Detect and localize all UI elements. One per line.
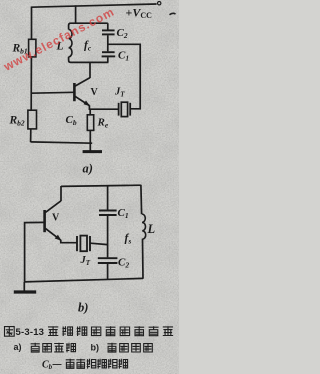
svg-text:V: V xyxy=(52,212,60,223)
svg-text:b): b) xyxy=(91,343,100,353)
wire: bottom rail xyxy=(31,142,93,143)
wire: between C1 and junction (b) xyxy=(107,216,109,258)
transistor V(b): collector diagonal xyxy=(45,201,61,213)
wire: left vertical between Rb1 and Rb2 xyxy=(30,57,32,110)
wire: right branch bottom (b) xyxy=(142,239,145,279)
wire: top rail (b) xyxy=(61,185,141,186)
watermark www.elecfans.com xyxy=(1,4,117,74)
caption line2 hanzi a xyxy=(31,343,40,352)
svg-text:V: V xyxy=(91,87,99,98)
capacitor C1 (b) xyxy=(99,210,117,212)
resistor Rb2 xyxy=(28,110,37,129)
tank loop top edge xyxy=(69,23,108,29)
transistor V: emitter diagonal xyxy=(75,96,90,105)
resistor Re xyxy=(87,115,93,131)
resistor Rb1 xyxy=(29,39,36,57)
svg-text:b): b) xyxy=(78,300,88,314)
wire: base lead + left branch down (b) xyxy=(25,222,45,282)
tank loop left-bottom corner + bottom edge xyxy=(69,57,109,63)
crystal JT plates xyxy=(118,103,120,116)
wire: right branch top (b) xyxy=(140,185,143,214)
caption line1 hanzi xyxy=(48,326,58,336)
inductor L (b, 3 loops) xyxy=(142,214,146,239)
transistor V(b): emitter diagonal xyxy=(45,228,60,240)
crystal JT(b) box xyxy=(80,236,87,252)
capacitor C2 (b) xyxy=(98,257,118,259)
wire: Re lead from emitter node xyxy=(89,109,91,115)
transistor V(b): emitter arrowhead xyxy=(55,235,61,240)
node: +Vcc terminal circle xyxy=(158,2,161,5)
capacitor C2 (tank) xyxy=(102,29,115,31)
wire: collector drop from tank xyxy=(89,62,91,78)
svg-text:L: L xyxy=(147,222,156,236)
svg-text:5-3-13: 5-3-13 xyxy=(16,327,45,338)
caption hanzi 图 xyxy=(5,327,15,337)
wire: between C2 and C1 xyxy=(107,35,109,51)
inductor L (tank, 3 loops) xyxy=(69,29,72,56)
wire: cap column top lead xyxy=(107,23,109,29)
svg-text:—: — xyxy=(53,359,62,369)
transistor V: base bar xyxy=(73,83,76,101)
paper background xyxy=(0,0,179,374)
ground (circuit b) xyxy=(23,282,25,291)
caption line3 hanzi xyxy=(66,359,75,369)
wire: Vcc feed to tank xyxy=(75,5,77,24)
wire: C branch top lead (b) xyxy=(107,186,109,210)
svg-text:a): a) xyxy=(14,342,22,352)
wire: bottom rail (b) xyxy=(24,278,143,282)
artifact dash right of +Vcc xyxy=(170,13,176,14)
wire: below C2 to bottom rail (b) xyxy=(107,264,109,280)
wire: left vertical below Rb2 to bottom rail xyxy=(30,129,32,142)
wire: left vertical (Rb1/Rb2 branch) xyxy=(31,7,33,40)
wire: collector vertical (b) xyxy=(60,186,62,201)
crystal JT(b) plates xyxy=(76,236,78,251)
transistor V: collector diagonal xyxy=(75,78,90,87)
ground (circuit a) xyxy=(83,150,102,153)
wire: emitter to crystal xyxy=(89,105,118,109)
wire: Re to ground xyxy=(89,130,91,150)
wire: base lead xyxy=(31,91,74,94)
caption line2 hanzi b xyxy=(107,343,116,352)
transistor V(b): base bar xyxy=(43,210,46,232)
svg-text:a): a) xyxy=(83,162,93,176)
wire: crystal to C branch junction (b) xyxy=(90,243,107,244)
transistor V: emitter arrowhead xyxy=(84,101,89,106)
wire: +Vcc top rail xyxy=(31,4,156,7)
wire: below C1 to loop bottom xyxy=(107,57,109,62)
crystal JT box xyxy=(121,102,127,116)
capacitor C1 (tank) xyxy=(102,51,115,53)
wire: emitter to crystal (b) xyxy=(61,240,77,243)
wire: tap C1C2 junction to right vertical xyxy=(108,44,140,109)
